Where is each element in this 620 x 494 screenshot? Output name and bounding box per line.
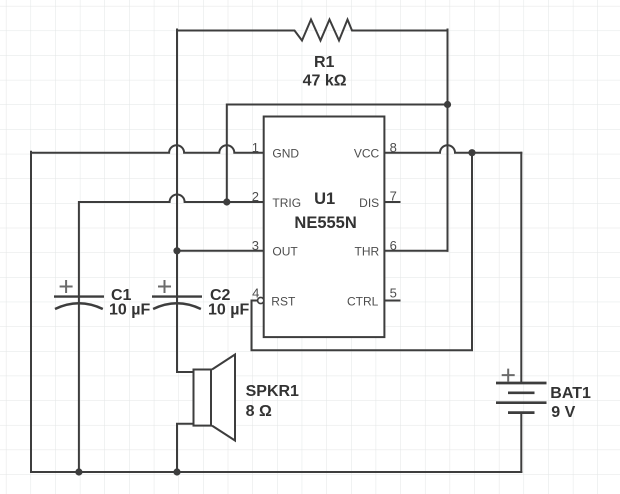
svg-text:9 V: 9 V <box>551 404 575 421</box>
svg-text:10 µF: 10 µF <box>109 302 150 319</box>
svg-text:4: 4 <box>252 285 259 300</box>
svg-text:3: 3 <box>252 238 259 253</box>
svg-text:10 µF: 10 µF <box>208 302 249 319</box>
svg-text:7: 7 <box>390 188 397 203</box>
svg-text:8 Ω: 8 Ω <box>246 403 272 420</box>
svg-text:U1: U1 <box>314 190 335 208</box>
svg-text:5: 5 <box>390 286 397 301</box>
svg-text:VCC: VCC <box>354 147 380 161</box>
svg-text:1: 1 <box>252 140 259 155</box>
svg-text:BAT1: BAT1 <box>550 385 591 402</box>
svg-text:OUT: OUT <box>272 245 298 259</box>
svg-text:GND: GND <box>272 147 299 161</box>
svg-text:THR: THR <box>355 245 380 259</box>
svg-text:6: 6 <box>390 238 397 253</box>
svg-text:NE555N: NE555N <box>294 214 356 232</box>
svg-text:DIS: DIS <box>359 196 379 210</box>
svg-text:SPKR1: SPKR1 <box>246 383 299 400</box>
svg-text:8: 8 <box>390 140 397 155</box>
svg-text:RST: RST <box>271 294 296 308</box>
svg-text:TRIG: TRIG <box>272 196 301 210</box>
svg-text:R1: R1 <box>314 54 335 71</box>
svg-text:2: 2 <box>252 189 259 204</box>
svg-text:47 kΩ: 47 kΩ <box>303 73 347 90</box>
svg-text:CTRL: CTRL <box>347 294 379 308</box>
